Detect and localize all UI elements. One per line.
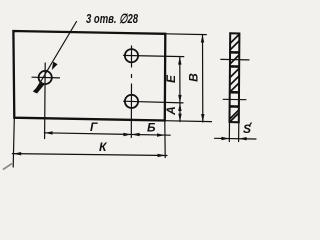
hole O2 upper right — [125, 49, 138, 62]
svg-text:Е: Е — [164, 74, 178, 83]
centerline of upper hole through strip — [221, 58, 249, 61]
paper background — [0, 0, 262, 174]
arrow К left — [13, 152, 21, 155]
strip outline — [230, 33, 240, 122]
arrow leader tip at hole O1 edge — [52, 62, 58, 70]
arrow Е bottom — [178, 95, 181, 103]
plate outline (main view) — [13, 31, 165, 121]
svg-text:Г: Г — [90, 120, 98, 134]
extension of plate left edge down to К line — [13, 118, 14, 167]
hidden hole edges (dashed) lower hole — [230, 91, 238, 94]
centerline of lower hole through strip — [223, 98, 246, 100]
arrow А bottom — [178, 114, 181, 122]
dimension line В (vertical) — [202, 35, 204, 123]
arrow blob at leader end lower-left of O1 — [33, 82, 44, 94]
arrow Е top — [178, 57, 181, 65]
hole O1 vertical centerline / extension to Г line — [44, 63, 47, 139]
prime mark of S — [250, 123, 252, 126]
hole O2 horizontal centerline (extends to Е dimension line) — [124, 55, 184, 56]
hidden hole edges (dashed) upper hole — [231, 51, 239, 54]
extension of plate top edge right to В line — [165, 33, 206, 36]
svg-text:3 отв. ∅28: 3 отв. ∅28 — [86, 11, 139, 26]
arrow Г right — [123, 133, 131, 136]
svg-text:В: В — [186, 73, 200, 82]
extension lines below strip for δ — [228, 122, 230, 142]
hole O3 lower right — [125, 95, 138, 108]
arrow В top — [201, 35, 204, 43]
hole O1 left, Ø28 — [39, 71, 52, 84]
hatching — [230, 35, 239, 44]
arrow К right — [158, 154, 166, 157]
arrow δ right (points left) — [239, 137, 247, 140]
svg-text:Б: Б — [147, 121, 156, 135]
arrow Г left — [45, 131, 53, 134]
dimension line Г and Б (shared) — [44, 133, 170, 135]
hole O1 horizontal centerline — [32, 76, 60, 79]
faint smudge bottom-left — [3, 164, 12, 170]
arrow δ left (points right) — [221, 137, 229, 140]
extension of plate bottom edge right to В line — [165, 120, 212, 123]
arrow В bottom — [201, 114, 204, 122]
arrow Б left — [132, 133, 140, 136]
hole O3 horizontal centerline (extends to А dimension line) — [124, 101, 184, 103]
arrow Б right — [157, 133, 165, 136]
arrow А top — [178, 103, 181, 111]
dimension line Е / А (shared vertical) — [179, 57, 181, 122]
dimension line К — [12, 154, 167, 156]
dimension line δ — [215, 137, 257, 140]
leader line from note to hole O1 — [36, 22, 77, 90]
extension of plate right edge down to К line — [164, 121, 166, 158]
svg-text:А: А — [164, 106, 178, 116]
vertical centerline through holes O2,O3 down to Б line — [131, 46, 133, 67]
